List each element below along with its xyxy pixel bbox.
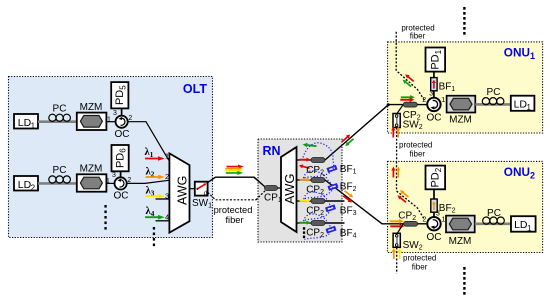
wire working fiber into CP1: [254, 177, 266, 187]
wire CP2-OC: [417, 104, 428, 106]
modulator MZM (row2): [77, 174, 107, 191]
yellow downstream arrow on working fiber: [225, 169, 242, 173]
svg-text:OC: OC: [115, 129, 130, 140]
blue dotted protection chain: [303, 143, 334, 240]
wire input4 stub: [156, 220, 170, 222]
wire RN AWG output 2: [297, 179, 312, 181]
green downstream arrow on working fiber: [226, 171, 243, 175]
red arrow on ONU2 protection path: [396, 194, 407, 204]
red arrow on ONU1 protection path: [404, 73, 415, 83]
coupler CP2 (ONU2): [404, 221, 418, 226]
svg-text:BF4: BF4: [340, 228, 357, 240]
circulator OC (row2): [115, 177, 127, 189]
svg-text:LD: LD: [18, 117, 32, 129]
wire OC-PD6: [120, 171, 122, 177]
yellow up arrow below ONU2: [398, 248, 402, 259]
wire into ONU2: [388, 223, 405, 225]
wire LD2-MZM: [38, 182, 78, 185]
svg-text:1: 1: [106, 178, 110, 185]
bandpass filter BF2 (ONU2): [431, 199, 437, 212]
svg-text:RN: RN: [263, 144, 281, 158]
wire RN row3 stub out: [325, 200, 345, 202]
svg-text:2: 2: [31, 184, 36, 193]
polarization controller PC (ONU2): [483, 217, 505, 224]
orange arrow on ONU2 protection path: [399, 188, 410, 198]
svg-text:PC: PC: [487, 208, 501, 219]
coupler CP1: [264, 186, 277, 191]
green arrow near ONU1 CP2: [401, 95, 415, 100]
yellow downstream arrow row 3: [300, 199, 311, 203]
wire into ONU1: [388, 104, 404, 106]
svg-text:OC: OC: [114, 191, 129, 202]
bandpass filter BF2: [328, 184, 337, 190]
svg-text:1: 1: [31, 122, 36, 131]
modulator MZM (ONU2): [446, 216, 475, 233]
svg-text:1: 1: [441, 97, 445, 104]
circulator OC (ONU2): [427, 217, 440, 230]
svg-text:MZM: MZM: [449, 114, 472, 125]
red downstream arrow on working fiber: [227, 165, 244, 169]
svg-text:OC: OC: [427, 113, 442, 124]
bandpass filter BF1: [327, 166, 336, 172]
svg-text:3: 3: [429, 91, 433, 98]
coupler CP2 row 2: [311, 178, 325, 183]
wire OC-BF2: [433, 212, 435, 217]
red downstream arrow to ONU1: [341, 133, 352, 143]
wire RN AWG output 3: [297, 200, 312, 202]
fiber MZM-PC-LD: [475, 223, 512, 226]
svg-text:PC: PC: [487, 87, 501, 98]
svg-text:PC: PC: [53, 104, 67, 115]
svg-text:BF1: BF1: [340, 164, 357, 176]
svg-text:d: d: [204, 190, 208, 197]
wire RN AWG output 1: [297, 159, 312, 161]
wire MZM-OC: [106, 121, 116, 123]
wire RN row4 stub out: [325, 222, 345, 224]
svg-text:MZM: MZM: [449, 236, 472, 247]
wire CP2-OC: [418, 223, 428, 225]
svg-text:BF3: BF3: [340, 206, 357, 218]
green upstream arrow into RN AWG: [302, 142, 316, 148]
wire BF2-PD2: [433, 189, 435, 199]
red up arrow top of ONU2: [391, 167, 395, 178]
polarization controller PC (row1): [49, 114, 71, 121]
wire CP1-AWG: [278, 187, 282, 189]
green arrow on ONU1 protection path: [401, 78, 412, 88]
protection fiber into ONU2 (dashed): [397, 162, 425, 220]
dots below lambda inputs: [153, 227, 155, 246]
AWG mux (OLT): [169, 153, 189, 232]
svg-text:1: 1: [527, 103, 532, 112]
svg-text:protected: protected: [214, 205, 253, 215]
coupler CP2 row 4: [311, 221, 325, 226]
svg-text:LD: LD: [18, 179, 32, 191]
svg-text:2: 2: [423, 217, 427, 224]
laser LD1 (ONU1): [511, 96, 535, 111]
photodiode PD2: [426, 166, 446, 190]
svg-text:OC: OC: [427, 232, 442, 243]
circulator OC (ONU1): [427, 98, 440, 111]
dots below ONU2: [463, 267, 465, 295]
fiber MZM-PC-LD: [475, 103, 511, 106]
junction node: [387, 103, 390, 106]
protection fiber below ONU2 (dashed): [396, 247, 398, 273]
svg-text:BF2: BF2: [340, 182, 357, 194]
wire OC-PD5: [121, 108, 123, 115]
modulator MZM (row1): [77, 113, 107, 130]
orange up arrow top of ONU2: [396, 167, 400, 178]
polarization controller PC (ONU1): [482, 98, 504, 105]
svg-text:1: 1: [107, 116, 111, 123]
svg-text:fiber: fiber: [225, 215, 243, 225]
dots below RN row4: [303, 227, 305, 238]
svg-text:OLT: OLT: [183, 82, 207, 96]
photodiode PD6: [112, 145, 129, 171]
red downstream arrow row 1: [300, 158, 311, 162]
orange downstream arrow to ONU2: [343, 189, 354, 199]
green upstream arrow from ONU1: [344, 137, 355, 147]
dots above ONU1: [463, 7, 465, 35]
svg-text:protected: protected: [403, 254, 436, 263]
laser LD1 (ONU2): [511, 216, 536, 232]
dots below OLT transmitters: [104, 205, 106, 230]
coupler CP2 row 3: [311, 199, 325, 204]
wire BF1-PD1: [433, 72, 435, 78]
svg-text:LD: LD: [514, 219, 528, 231]
ONU2 box: [388, 161, 543, 252]
RN box: [258, 139, 342, 242]
svg-text:1: 1: [441, 217, 445, 224]
wire RN row1 to ONU1: [325, 105, 388, 160]
wire AWG-SW1: [190, 188, 195, 190]
orange downstream arrow on working fiber: [225, 167, 242, 171]
bandpass filter BF3: [326, 205, 335, 211]
laser LD2: [14, 176, 38, 191]
wire OC2 to AWG input 2: [127, 180, 169, 183]
svg-text:MZM: MZM: [80, 164, 103, 175]
AWG demux (RN): [281, 147, 297, 232]
svg-text:AWG: AWG: [175, 176, 189, 205]
orange up arrow ONU1-ONU2 fiber: [396, 127, 400, 138]
wire MZM-OC: [106, 182, 115, 184]
protection fiber ONU1-ONU2 (dashed): [396, 128, 398, 161]
bandpass filter BF1 (ONU1): [431, 78, 437, 91]
svg-text:fiber: fiber: [410, 32, 426, 41]
svg-text:MZM: MZM: [80, 102, 103, 113]
ONU1 box: [388, 42, 543, 133]
svg-text:fiber: fiber: [410, 150, 426, 159]
coupler CP2 (ONU1): [403, 102, 417, 107]
protection fiber OLT-RN (dotted): [208, 190, 266, 200]
orange up arrow below ONU2: [392, 248, 396, 259]
wire OC-BF1: [433, 91, 435, 98]
circulator OC (row1): [116, 116, 128, 128]
switch SW2 (ONU1): [397, 105, 403, 114]
orange downstream arrow row 2: [300, 178, 311, 182]
svg-text:PC: PC: [53, 165, 67, 176]
polarization controller PC (row2): [49, 176, 71, 183]
modulator MZM (ONU1): [447, 96, 476, 113]
orange arrow near ONU2 CP2: [390, 219, 404, 224]
svg-text:protected: protected: [399, 141, 432, 150]
switch SW2 (ONU2): [397, 225, 403, 235]
wire protection fiber into CP1: [256, 190, 266, 200]
svg-text:LD: LD: [514, 99, 528, 111]
red arrow near ONU1 CP2: [400, 98, 414, 103]
red arrow near ONU2 CP2: [390, 224, 404, 229]
svg-text:3: 3: [112, 172, 116, 179]
svg-text:AWG: AWG: [282, 174, 297, 205]
svg-text:fiber: fiber: [412, 263, 428, 272]
switch SW1: [195, 182, 208, 196]
wire LD1-MZM (fiber): [38, 120, 78, 123]
wire RN AWG output 4: [297, 222, 312, 224]
svg-text:1: 1: [527, 224, 532, 233]
laser LD1: [14, 114, 38, 129]
svg-text:3: 3: [113, 110, 117, 117]
red upstream arrow into RN AWG: [298, 163, 310, 170]
photodiode PD5: [111, 82, 128, 108]
bandpass filter BF4: [326, 227, 335, 233]
red up arrow ONU1-ONU2 fiber: [391, 127, 395, 138]
photodiode PD1: [426, 48, 446, 72]
working fiber OLT-RN: [208, 177, 266, 187]
OLT box: [9, 77, 213, 238]
wire RN row2 to ONU2: [325, 180, 404, 224]
coupler CP2 row 1: [311, 158, 325, 163]
wire input3 stub: [156, 198, 170, 200]
wire OC1 to AWG input 1: [128, 122, 169, 161]
red arrow on ONU2 feeder: [342, 194, 353, 204]
svg-text:2: 2: [422, 97, 426, 104]
protection fiber into ONU1 (dashed): [396, 32, 424, 101]
green downstream arrow row 4: [300, 221, 311, 225]
